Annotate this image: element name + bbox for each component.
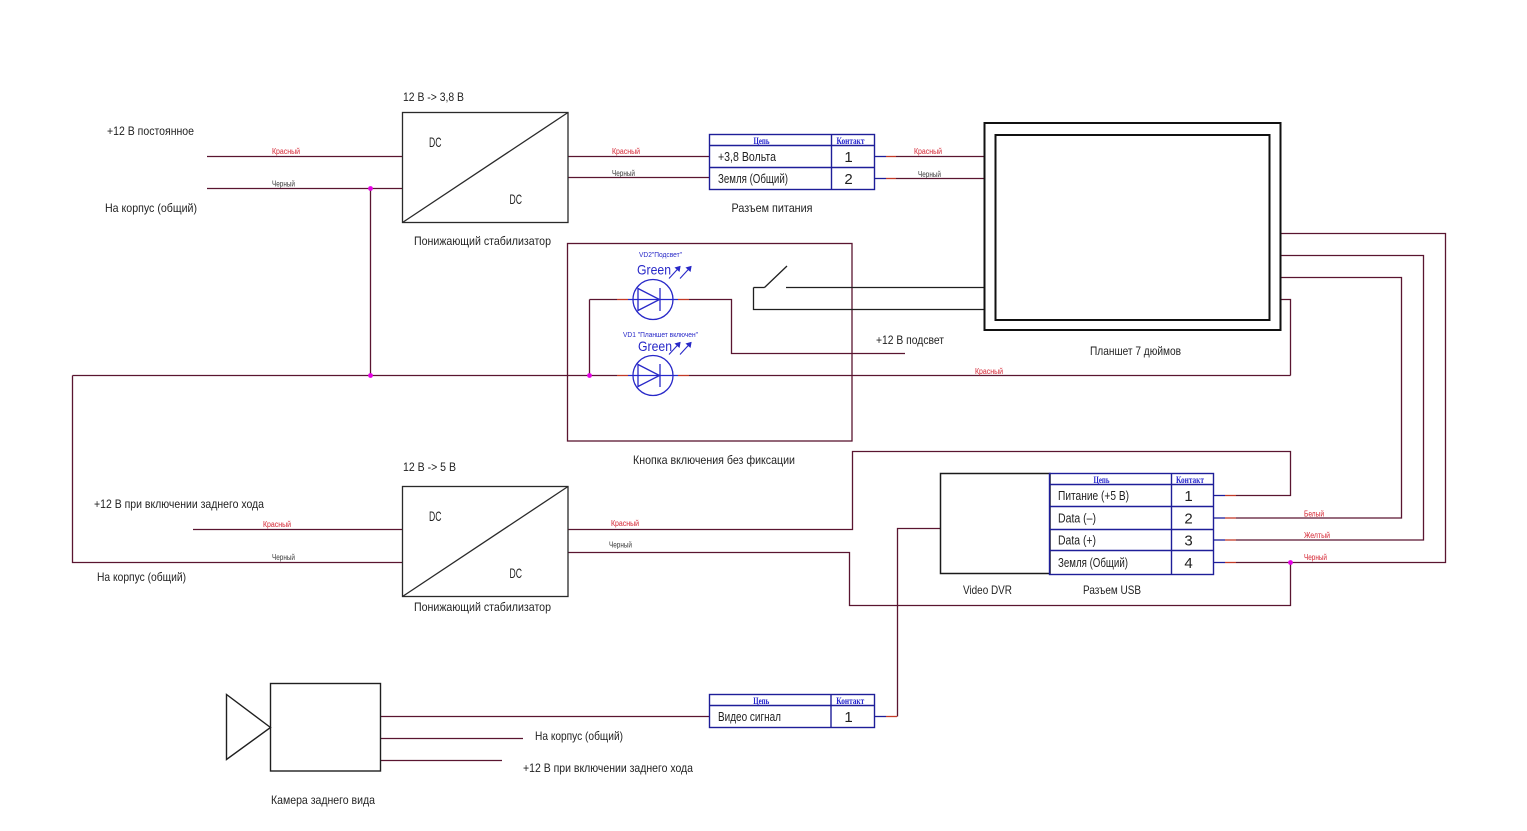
- svg-text:DC: DC: [429, 134, 442, 150]
- svg-text:Красный: Красный: [975, 367, 1003, 376]
- svg-text:Понижающий стабилизатор: Понижающий стабилизатор: [414, 600, 551, 614]
- svg-text:Контакт: Контакт: [836, 697, 864, 707]
- svg-text:Data (+): Data (+): [1058, 534, 1096, 548]
- svg-text:Красный: Красный: [263, 520, 291, 529]
- svg-text:2: 2: [1184, 511, 1192, 528]
- svg-text:Кнопка включения без фиксации: Кнопка включения без фиксации: [633, 453, 795, 467]
- svg-text:1: 1: [844, 149, 852, 166]
- svg-text:Green: Green: [638, 338, 672, 354]
- svg-text:VD2"Подсвет": VD2"Подсвет": [639, 250, 682, 259]
- svg-text:Планшет 7 дюймов: Планшет 7 дюймов: [1090, 344, 1181, 358]
- svg-text:2: 2: [844, 171, 852, 188]
- svg-text:12 В -> 3,8 В: 12 В -> 3,8 В: [403, 90, 464, 104]
- svg-text:Понижающий стабилизатор: Понижающий стабилизатор: [414, 234, 551, 248]
- svg-text:Желтый: Желтый: [1304, 531, 1330, 540]
- svg-text:Контакт: Контакт: [1176, 476, 1204, 486]
- svg-text:1: 1: [1184, 488, 1192, 505]
- svg-text:Видео сигнал: Видео сигнал: [718, 710, 781, 724]
- svg-text:Камера заднего вида: Камера заднего вида: [271, 793, 375, 807]
- svg-text:Черный: Черный: [272, 180, 295, 189]
- svg-text:+12 В подсвет: +12 В подсвет: [876, 333, 944, 347]
- svg-text:Черный: Черный: [272, 553, 295, 562]
- svg-text:Черный: Черный: [609, 541, 632, 550]
- svg-text:Красный: Красный: [914, 147, 942, 156]
- svg-text:Красный: Красный: [612, 147, 640, 156]
- svg-text:Video DVR: Video DVR: [963, 583, 1012, 597]
- svg-text:Белый: Белый: [1304, 510, 1324, 519]
- svg-text:Разъем питания: Разъем питания: [732, 201, 813, 215]
- svg-text:Черный: Черный: [918, 170, 941, 179]
- svg-text:Цепь: Цепь: [1094, 476, 1110, 486]
- svg-text:Земля (Общий): Земля (Общий): [1058, 556, 1128, 570]
- svg-text:+12 В при включении заднего хо: +12 В при включении заднего хода: [523, 761, 693, 775]
- svg-text:Цепь: Цепь: [754, 137, 770, 147]
- svg-text:VD1 "Планшет включен": VD1 "Планшет включен": [623, 330, 698, 339]
- svg-text:+12 В при включении заднего хо: +12 В при включении заднего хода: [94, 497, 264, 511]
- svg-text:Data (–): Data (–): [1058, 512, 1096, 526]
- svg-text:На корпус (общий): На корпус (общий): [97, 570, 186, 584]
- svg-text:+12 В постоянное: +12 В постоянное: [107, 124, 194, 138]
- svg-text:Земля (Общий): Земля (Общий): [718, 172, 788, 186]
- svg-text:+3,8 Вольта: +3,8 Вольта: [718, 150, 776, 164]
- svg-text:Питание (+5 В): Питание (+5 В): [1058, 489, 1129, 503]
- svg-text:12 В -> 5 В: 12 В -> 5 В: [403, 460, 456, 474]
- svg-text:Черный: Черный: [612, 169, 635, 178]
- svg-text:На корпус (общий): На корпус (общий): [105, 201, 197, 215]
- svg-text:3: 3: [1184, 533, 1192, 550]
- svg-text:На корпус (общий): На корпус (общий): [535, 729, 623, 743]
- svg-text:DC: DC: [510, 191, 523, 207]
- svg-text:Красный: Красный: [611, 519, 639, 528]
- svg-text:Контакт: Контакт: [837, 137, 865, 147]
- svg-text:1: 1: [844, 709, 852, 726]
- svg-text:Разъем USB: Разъем USB: [1083, 583, 1141, 597]
- svg-text:DC: DC: [429, 508, 442, 524]
- svg-text:4: 4: [1184, 555, 1192, 572]
- svg-text:Красный: Красный: [272, 147, 300, 156]
- svg-text:Green: Green: [637, 262, 671, 278]
- svg-text:Цепь: Цепь: [753, 697, 769, 707]
- svg-text:Черный: Черный: [1304, 553, 1327, 562]
- svg-text:DC: DC: [510, 565, 523, 581]
